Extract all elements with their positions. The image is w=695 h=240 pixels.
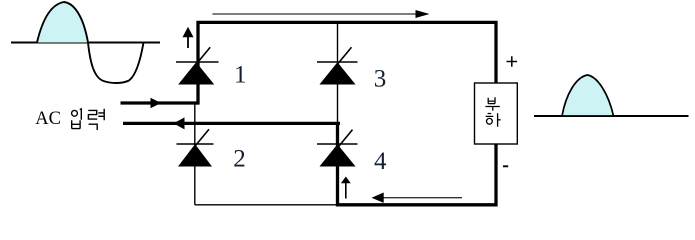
thyristor 4 <box>317 130 358 166</box>
wire: thin right bridge leg through thyristor 3 <box>337 22 339 123</box>
arrow: top annotation arrow (current direction) <box>212 10 429 18</box>
svg-text:4: 4 <box>374 148 387 175</box>
arrow: bottom annotation arrow (current direction) <box>372 193 463 203</box>
label - <box>503 165 508 167</box>
node: AC input sine positive half (filled) <box>37 2 88 43</box>
glyph 입 <box>72 109 82 129</box>
arrow: up arrow near thyristor 1 <box>183 27 194 48</box>
thyristor 1 <box>176 47 219 84</box>
wire: AC input top lead (bold) <box>121 101 199 104</box>
load box 부하 <box>475 83 518 144</box>
wire: thin bottom wire left part <box>195 204 338 206</box>
wire: bold current path top (left leg up, top wire, right leg to load) <box>198 22 496 104</box>
thyristor 2 <box>177 129 214 166</box>
svg-text:1: 1 <box>234 61 247 88</box>
glyph 력 <box>88 109 104 130</box>
glyph 하 <box>486 113 501 127</box>
wire: AC input sine outline <box>37 2 144 83</box>
svg-text:3: 3 <box>374 65 387 92</box>
node: output waveform axis <box>534 115 689 117</box>
glyph 부 <box>485 97 499 110</box>
label + <box>507 56 518 67</box>
arrowhead left on AC bottom lead <box>174 117 185 129</box>
thyristor 3 <box>317 47 358 84</box>
arrow: up arrow near thyristor 4 <box>341 177 351 199</box>
node: AC input sine waveform axis <box>11 42 160 44</box>
arrowhead right on AC top lead <box>151 98 162 109</box>
node: output waveform half sine (filled) <box>562 75 614 116</box>
svg-text:AC: AC <box>35 109 61 129</box>
wire: bold current path bottom (load to bottom wire to thyristor4 leg) <box>338 123 497 204</box>
label: AC 입력 text <box>35 109 104 130</box>
wire: AC input bottom lead (bold) <box>123 122 340 125</box>
svg-text:2: 2 <box>233 146 246 173</box>
wire: thin left leg through thyristor 2 <box>194 102 196 205</box>
